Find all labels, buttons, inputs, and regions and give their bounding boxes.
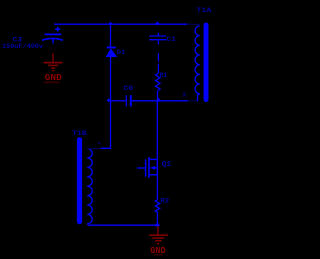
svg-text:R1: R1	[160, 72, 168, 79]
diode D1 cathode bar	[107, 47, 116, 49]
transformer T1B pin mark	[98, 142, 100, 144]
capacitor C1 bottom plate	[149, 39, 166, 41]
wire W2 dark continuation to T1A	[188, 100, 198, 102]
capacitor C3 bottom plate (curved)	[42, 38, 63, 40]
mosfet Q1 drain wire from W2	[156, 101, 158, 160]
resistor R2 zigzag	[155, 200, 159, 212]
transformer T1A winding arcs	[195, 26, 200, 94]
wire diode branch vertical	[110, 24, 112, 47]
diode D1 triangle	[106, 48, 118, 57]
ground G1 bar 1	[44, 62, 63, 64]
resistor R1 zigzag	[156, 74, 161, 91]
svg-text:GND: GND	[45, 72, 63, 83]
mosfet Q1 body stub with arrow	[154, 167, 158, 169]
ground G1 bar 2	[48, 64, 58, 66]
wire diode anode down to W2/T1B	[100, 57, 110, 148]
mosfet Q1 drain stub	[149, 158, 158, 160]
transformer T1A top dark stub	[187, 24, 200, 26]
svg-text:C0: C0	[123, 85, 133, 92]
mosfet Q1 right vertical	[156, 159, 158, 174]
ground G2 bar 4	[157, 243, 159, 245]
transformer T1B top dark stub	[87, 148, 100, 150]
transformer T1B winding arcs	[87, 149, 92, 224]
wire Q1 source down to R2	[156, 175, 158, 200]
wire C1 to R1 segment b	[157, 53, 159, 62]
mosfet Q1 source stub	[149, 174, 158, 176]
capacitor C0 right plate	[130, 95, 132, 106]
capacitor C3 top plate	[45, 33, 62, 35]
ground G2 underline mark	[154, 254, 163, 256]
capacitor C3 plus sign	[55, 27, 60, 32]
junction J5 at ground node	[155, 222, 160, 227]
wire W2 right segment	[132, 100, 188, 102]
transformer T1A core bar	[204, 25, 209, 100]
ground G1 underline mark	[44, 81, 60, 83]
wire C1 to R1 segment c	[157, 64, 159, 74]
capacitor C0 left plate	[125, 95, 127, 106]
wire C1 to R1 segment a	[157, 41, 159, 45]
svg-text:T1A: T1A	[196, 7, 211, 14]
ground G2 bar 2	[152, 237, 164, 239]
svg-text:D1: D1	[117, 49, 125, 56]
ground G2 stem	[157, 226, 159, 235]
ground G1 bar 4	[52, 70, 54, 72]
svg-text:Q1: Q1	[162, 161, 172, 169]
ground G2 bar 3	[155, 240, 162, 242]
wire R1 down to W2	[157, 91, 159, 101]
junction J1 on W1 at diode branch	[108, 22, 112, 26]
transformer T1A bottom stub	[198, 94, 200, 101]
svg-text:T1B: T1B	[72, 130, 87, 137]
ground G2 bar 1	[149, 234, 168, 236]
capacitor C1 top stub	[157, 33, 159, 36]
svg-text:150uF/400v: 150uF/400v	[2, 43, 43, 50]
mosfet Q1 gate stub	[137, 167, 145, 169]
wire W2 left segment to C0	[111, 100, 126, 102]
wire R2 down to ground node	[156, 212, 158, 225]
svg-text:R2: R2	[160, 197, 169, 204]
wire W3 bottom from T1B to ground node	[87, 224, 157, 225]
mosfet Q1 channel bar	[148, 157, 150, 178]
junction J3 on diode stem at W2 tap	[107, 98, 111, 102]
ground G1 bar 3	[51, 67, 55, 69]
mosfet Q1 gate bar	[145, 159, 147, 176]
wire W1 top horizontal bus	[54, 23, 187, 25]
junction J2 on W1 at snubber branch	[155, 21, 159, 25]
junction J4 on W2 at switch branch	[157, 98, 161, 102]
capacitor C3 bottom stem	[52, 39, 54, 44]
svg-text:C1: C1	[166, 36, 176, 43]
ground G1 stem	[52, 53, 54, 62]
capacitor C1 top plate	[149, 35, 166, 37]
transformer T1B core bar	[77, 140, 82, 222]
transformer T1A pin mark x	[183, 92, 186, 97]
